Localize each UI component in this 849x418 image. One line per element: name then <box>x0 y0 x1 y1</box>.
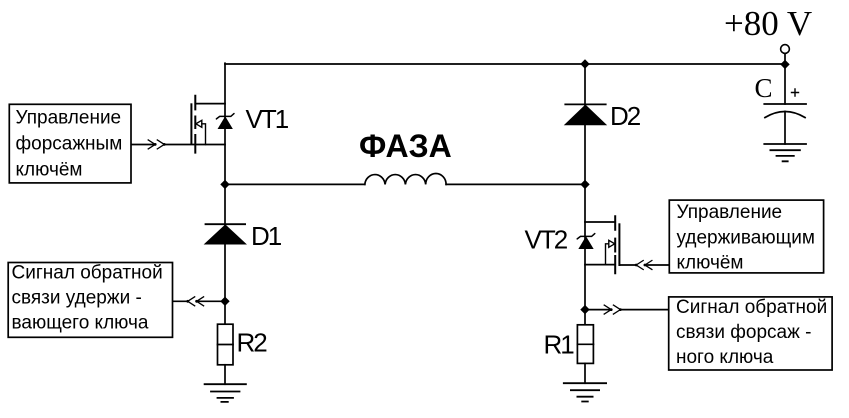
wire VT2 source connection <box>585 264 615 266</box>
resistor R2 <box>218 324 234 365</box>
node left feedback junction <box>220 297 229 306</box>
label D1 <box>251 221 282 251</box>
chevrons >> on right feedback wire <box>604 305 622 314</box>
svg-text:ФАЗА: ФАЗА <box>359 128 452 164</box>
chevrons << on VT2 gate wire <box>635 261 652 270</box>
diode D1 cathode bar <box>206 223 246 225</box>
VT1 substrate arrow <box>196 120 206 144</box>
wire phase line left segment <box>225 183 365 185</box>
label C <box>755 73 773 103</box>
wire capacitor to ground <box>784 112 786 145</box>
svg-text:D1: D1 <box>251 221 282 251</box>
label +80 V <box>724 4 812 43</box>
diode D2 cathode bar <box>565 103 605 105</box>
svg-text:связи форсаж -: связи форсаж - <box>676 322 811 343</box>
svg-text:+80 V: +80 V <box>724 4 812 43</box>
VT1 body diode cathode bar <box>216 114 234 119</box>
+80 V terminal circle <box>781 45 790 54</box>
svg-text:R1: R1 <box>544 330 575 360</box>
svg-text:ного ключа: ного ключа <box>676 347 774 368</box>
diode D2 triangle <box>565 105 606 125</box>
node rail junction at D2 <box>580 59 589 68</box>
text box: Сигнал обратной связи удержи - вающего ключа <box>8 263 172 338</box>
text box: Управление удерживающим ключём <box>669 200 823 273</box>
capacitor C top plate <box>764 103 806 105</box>
svg-text:Управление: Управление <box>16 108 122 129</box>
svg-text:R2: R2 <box>237 327 268 357</box>
resistor R1 <box>577 325 593 364</box>
text box: Сигнал обратной связи форсаж - ного ключа <box>669 297 832 370</box>
wire R1 to ground <box>584 363 586 383</box>
wire top power rail <box>225 63 785 65</box>
capacitor plus polarity mark <box>792 89 799 96</box>
svg-text:ключём: ключём <box>677 253 744 274</box>
wire VT2 drain connection <box>585 221 615 223</box>
svg-text:связи удержи -: связи удержи - <box>12 288 142 309</box>
transistor VT2 channel bar segments <box>614 216 616 273</box>
text box: Управление форсажным ключём <box>9 104 131 183</box>
VT2 substrate arrow <box>606 240 615 264</box>
label R2 <box>237 327 268 357</box>
svg-text:VT2: VT2 <box>525 224 568 254</box>
label ФАЗА (phase) <box>359 128 452 164</box>
wire VT1 drain connection <box>195 103 225 105</box>
node phase junction left <box>220 180 229 189</box>
chevrons << on left feedback wire <box>186 297 203 306</box>
ground under capacitor <box>764 144 806 161</box>
wire left vertical (VT1 drain-source / D1 / R2 branch) <box>224 63 226 324</box>
ground under R2 <box>205 384 246 402</box>
chevrons >> on VT1 gate wire <box>148 140 166 149</box>
wire R2 to ground <box>224 365 226 384</box>
svg-text:вающего ключа: вающего ключа <box>12 312 149 333</box>
label R1 <box>544 330 575 360</box>
svg-text:ключём: ключём <box>16 160 83 181</box>
svg-text:C: C <box>755 73 773 103</box>
wire VT1 gate lead and source connection <box>131 144 225 146</box>
svg-text:VT1: VT1 <box>246 104 289 134</box>
node right feedback junction <box>580 305 589 314</box>
svg-text:Управление: Управление <box>677 202 783 223</box>
wire right vertical (D2 / VT2 / R1 branch) <box>584 64 586 325</box>
node phase junction right <box>580 180 589 189</box>
wire VT2 gate lead <box>619 264 669 266</box>
VT2 body diode cathode bar <box>577 234 595 239</box>
label VT2 <box>525 224 568 254</box>
wire +80V terminal drop <box>784 54 786 105</box>
transistor VT1 channel bar segments <box>194 96 196 153</box>
wire phase line right segment <box>446 183 585 185</box>
diode D1 triangle <box>205 225 246 244</box>
label VT1 <box>246 104 289 134</box>
inductor L (phase) <box>365 173 446 184</box>
svg-text:форсажным: форсажным <box>16 134 123 155</box>
VT1 body diode triangle <box>219 117 232 128</box>
label D2 <box>610 101 641 131</box>
VT2 body diode triangle <box>579 237 592 248</box>
svg-text:Сигнал обратной: Сигнал обратной <box>676 297 827 318</box>
svg-text:D2: D2 <box>610 101 641 131</box>
wire left feedback tap <box>173 300 226 302</box>
transistor Q VT2: gate bar <box>618 224 620 265</box>
transistor Q VT1: gate bar <box>190 104 192 143</box>
node junction at +80V rail <box>780 60 789 69</box>
ground under R1 <box>564 383 606 401</box>
svg-text:удерживающим: удерживающим <box>677 228 815 249</box>
svg-text:Сигнал обратной: Сигнал обратной <box>12 263 163 284</box>
wire right feedback tap <box>585 309 669 311</box>
capacitor C curved bottom plate <box>765 112 805 118</box>
